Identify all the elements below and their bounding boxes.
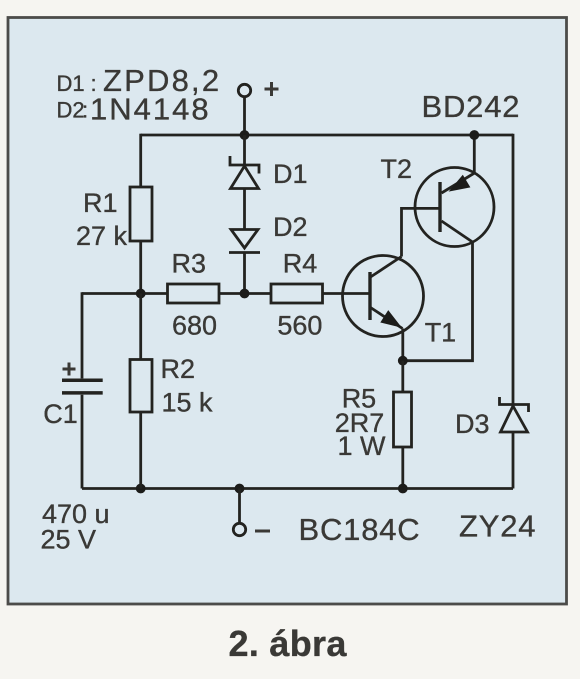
- wire left branch C1 top: [81, 292, 84, 378]
- wire D1 to D2: [243, 189, 246, 230]
- svg-text:1N4148: 1N4148: [90, 92, 211, 127]
- svg-text:BD242: BD242: [422, 89, 521, 124]
- caption 2. abra: [229, 623, 348, 664]
- wire right branch: [512, 134, 515, 405]
- svg-text:D2: D2: [273, 212, 308, 242]
- svg-text:T2: T2: [381, 154, 413, 184]
- label D1 type: [57, 63, 222, 98]
- node rail-plus junction: [240, 130, 250, 140]
- label D2 type: [57, 92, 211, 127]
- wire mid horizontal left: [82, 292, 168, 295]
- wire rail to D1: [243, 135, 246, 165]
- resistor R2: [130, 354, 213, 418]
- wire D2 to node: [243, 253, 246, 294]
- wire T2 collector down: [403, 242, 473, 361]
- wire T1 collector up to T2 base: [402, 208, 441, 256]
- svg-text:D3: D3: [455, 409, 490, 439]
- node diode chain junction: [240, 289, 250, 299]
- node R5 bottom junction: [398, 484, 408, 494]
- resistor R4: [271, 249, 323, 341]
- svg-text:R3: R3: [172, 249, 207, 279]
- wire plus terminal to rail: [243, 98, 246, 136]
- wire R4 to T1 base: [323, 292, 371, 295]
- wire R1 bottom: [139, 241, 142, 294]
- transistor T1: [343, 256, 457, 348]
- svg-text:T1: T1: [425, 318, 457, 348]
- diode D2: [229, 212, 308, 253]
- plus terminal: [238, 82, 278, 97]
- capacitor C1: [41, 363, 110, 555]
- svg-text:680: 680: [172, 311, 217, 341]
- diode D1 zener: [230, 156, 308, 189]
- diode D3 zener: [455, 397, 529, 439]
- resistor R5: [335, 384, 412, 462]
- svg-text:R4: R4: [283, 249, 318, 279]
- svg-text::: :: [82, 98, 88, 123]
- svg-text:D1: D1: [273, 159, 308, 189]
- wire C1 bottom: [81, 395, 84, 489]
- svg-text:D2: D2: [57, 98, 85, 123]
- svg-text:15 k: 15 k: [162, 388, 214, 418]
- wire bottom rail: [82, 487, 513, 490]
- node R1-R2 junction: [136, 289, 146, 299]
- node T1 emitter junction: [398, 356, 408, 366]
- wire node to R5: [401, 361, 404, 392]
- label BC184C: [299, 512, 421, 547]
- wire R3 to node: [219, 292, 271, 295]
- svg-text:R1: R1: [83, 188, 118, 218]
- resistor R1: [76, 187, 152, 251]
- minus terminal: [233, 489, 270, 536]
- wire R1 branch top: [139, 134, 142, 187]
- wire T2 emitter to rail: [473, 135, 476, 174]
- svg-text:D1: D1: [57, 71, 85, 96]
- node rail T2 junction: [469, 130, 479, 140]
- label BD242: [422, 89, 521, 124]
- svg-text:C1: C1: [43, 399, 78, 429]
- svg-text:ZY24: ZY24: [459, 509, 536, 544]
- node R2 bottom junction: [136, 484, 146, 494]
- wire D3 to bottom rail: [512, 432, 515, 489]
- resistor R3: [168, 249, 220, 341]
- label ZY24: [459, 509, 536, 544]
- svg-text:2. ábra: 2. ábra: [229, 623, 348, 664]
- wire top rail: [141, 134, 513, 137]
- svg-text:BC184C: BC184C: [299, 512, 421, 547]
- svg-text:1 W: 1 W: [338, 431, 387, 461]
- node minus terminal junction: [235, 484, 245, 494]
- wire T1 emitter down: [401, 329, 404, 361]
- transistor T2: [381, 154, 495, 247]
- wire R5 to bottom rail: [401, 447, 404, 489]
- svg-text:560: 560: [277, 311, 322, 341]
- svg-text:25 V: 25 V: [41, 525, 97, 555]
- svg-text:R2: R2: [161, 354, 196, 384]
- wire R2 bottom: [139, 412, 142, 489]
- wire R2 branch: [139, 294, 142, 360]
- svg-text:27 k: 27 k: [76, 221, 128, 251]
